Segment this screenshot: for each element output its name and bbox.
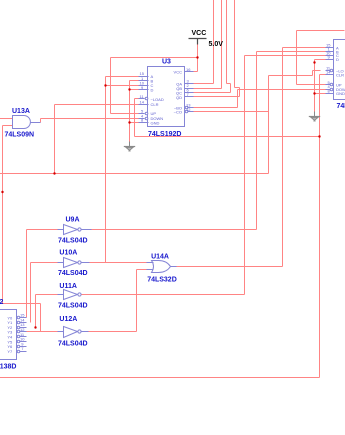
svg-text:74LS04D: 74LS04D (58, 270, 88, 277)
svg-text:CLR: CLR (336, 72, 344, 77)
wire U9A out to U4 B (92, 52, 326, 230)
pin 5 UP stub (139, 113, 145, 115)
svg-text:Y7: Y7 (7, 349, 13, 354)
U4 pin 11 ~LOAD stub (326, 70, 331, 72)
wire U3 ~CO net: long left rail y=173.7 and U4 ~LOAD (0, 71, 321, 174)
wire U10A out to U14A input1 (90, 262, 152, 264)
svg-text:U11A: U11A (59, 283, 77, 290)
svg-text:GND: GND (151, 120, 160, 125)
node CLR rail junction (53, 172, 55, 174)
wire VCC branch H1 (111, 57, 198, 59)
wire Y0 to U9A input (27, 230, 66, 318)
wire QA to top (194, 0, 214, 84)
svg-text:74LS04D: 74LS04D (58, 237, 88, 244)
svg-text:VCC: VCC (192, 30, 207, 37)
U4 pin 15 A stub (326, 47, 334, 49)
wire VCC drop to U3 pin16 (192, 45, 198, 72)
wire Y1 to U10A input (31, 263, 64, 323)
U4 pin 1 B stub (326, 51, 334, 53)
pin 11 ~LOAD stub (139, 98, 145, 100)
ground symbol below U3 (124, 142, 135, 152)
svg-text:U3: U3 (162, 59, 171, 66)
wire U13A out to U3 DOWN (41, 119, 139, 123)
svg-text:U13A: U13A (12, 108, 30, 115)
U13A AND gate 74LS09N (5, 108, 41, 139)
svg-text:U12A: U12A (59, 316, 77, 323)
pin 10 C stub (139, 85, 149, 87)
node U4 GND dot (313, 92, 315, 94)
pin 16 VCC stub (185, 71, 194, 73)
wire QB to top (194, 0, 222, 89)
svg-text:QD: QD (176, 95, 182, 100)
pin 7 Y7 stub (17, 350, 20, 353)
wire U3 A and C net (106, 77, 139, 263)
U11A inverter 74LS04D (58, 283, 88, 310)
svg-text:74LS138D: 74LS138D (0, 364, 16, 371)
pin 12 Y3 stub (17, 330, 20, 333)
pin 10 Y5 stub (17, 340, 20, 343)
node U3 D branch (128, 88, 130, 90)
VCC power symbol (189, 30, 224, 48)
svg-text:~LOAD: ~LOAD (151, 97, 164, 102)
node U4 D dot (313, 61, 315, 63)
svg-text:14: 14 (140, 99, 145, 104)
pin 14 Y1 stub (17, 321, 20, 324)
ground symbol right of U4 (309, 112, 320, 122)
U4 pin 5 UP stub (326, 84, 331, 86)
svg-text:16: 16 (186, 67, 191, 72)
svg-text:5.0V: 5.0V (209, 41, 224, 48)
pin 15 A stub (139, 76, 149, 78)
node VCC junction (196, 56, 198, 58)
U2 74LS138D decoder (cut at left edge) (0, 299, 27, 371)
pin 9 Y6 stub (17, 345, 20, 348)
node U3 C branch (104, 84, 106, 86)
svg-text:GND: GND (336, 91, 345, 96)
pin 9 D stub (139, 89, 149, 91)
wire U12A out to U14A input2 (89, 270, 152, 332)
pin 3 QA stub (185, 83, 194, 85)
svg-text:U10A: U10A (59, 249, 77, 256)
pin 15 Y0 stub (17, 316, 20, 319)
wire U13A input 1 from left edge (0, 118, 13, 120)
wire VCC to U3 UP pin (111, 58, 139, 114)
wire QC to top (194, 0, 231, 93)
svg-text:74LS192D: 74LS192D (148, 131, 181, 138)
U4 pin 4 DOWN stub (326, 89, 331, 91)
wire U3 CLR net (55, 105, 139, 174)
pin 4 DOWN stub (139, 118, 145, 120)
pin 12 ~CO stub (188, 111, 194, 113)
pin 8 GND stub (139, 122, 149, 124)
pin 2 QB stub (185, 88, 194, 90)
svg-text:12: 12 (186, 107, 191, 112)
wire U11A out to U4 C (81, 56, 326, 295)
svg-text:U2: U2 (0, 299, 4, 306)
pin 1 B stub (139, 80, 149, 82)
svg-text:U9A: U9A (66, 217, 80, 224)
node Y3 net dot (1, 191, 3, 193)
wire U14A out to U4 A (177, 48, 326, 267)
node long-load rail dot (318, 135, 320, 137)
U3 74LS192D counter (139, 59, 194, 139)
wire U3 ~LOAD to long net (135, 99, 139, 137)
U4 pin 9 D stub (326, 59, 334, 61)
U10A inverter 74LS04D (58, 249, 90, 277)
wire U4 CLR / ~LOAD-long / bottom rail (0, 75, 326, 378)
U9A inverter 74LS04D (58, 217, 92, 245)
svg-text:74LS04D: 74LS04D (58, 340, 88, 347)
svg-text:74LS32D: 74LS32D (147, 277, 177, 284)
svg-text:14: 14 (326, 70, 331, 75)
U4 pin 8 GND stub (326, 93, 334, 95)
svg-text:~CO: ~CO (174, 109, 182, 114)
wire U13A input 2 to Y3 net (3, 126, 41, 304)
pin 13 Y2 stub (17, 326, 20, 329)
svg-text:VCC: VCC (174, 70, 183, 75)
wire Y2 to U11A input (36, 295, 64, 328)
svg-text:D: D (336, 57, 339, 62)
wire net to U4 UP from right edge (297, 31, 345, 85)
wire Y3 to U12A input (27, 304, 64, 332)
svg-text:74L: 74L (337, 103, 345, 110)
svg-text:CLR: CLR (151, 102, 159, 107)
pin 7 QD stub (185, 96, 194, 98)
wire QD to top (194, 0, 240, 97)
U4 74LS192D counter (cut at right edge) (326, 40, 345, 111)
pin 6 QC stub (185, 92, 194, 94)
node Y2 dot (34, 326, 36, 328)
U4 pin 14 CLR stub (326, 74, 334, 76)
wire U3 B D GND grounded net (130, 81, 139, 142)
svg-text:U14A: U14A (151, 254, 169, 261)
pin 11 Y4 stub (17, 335, 20, 338)
svg-text:D: D (151, 88, 154, 93)
U12A inverter 74LS04D (58, 316, 89, 347)
svg-text:74LS09N: 74LS09N (5, 132, 35, 139)
U4 pin 10 C stub (326, 55, 334, 57)
svg-text:74LS04D: 74LS04D (58, 303, 88, 310)
U14A OR gate 74LS32D (147, 254, 177, 284)
wire U3 ~BO to U4 DOWN (194, 90, 326, 108)
pin 14 CLR stub (139, 104, 149, 106)
wire U4 D and GND to ground (315, 60, 326, 112)
pin 13 ~BO stub (188, 107, 194, 109)
node U3 GND branch (128, 121, 130, 123)
